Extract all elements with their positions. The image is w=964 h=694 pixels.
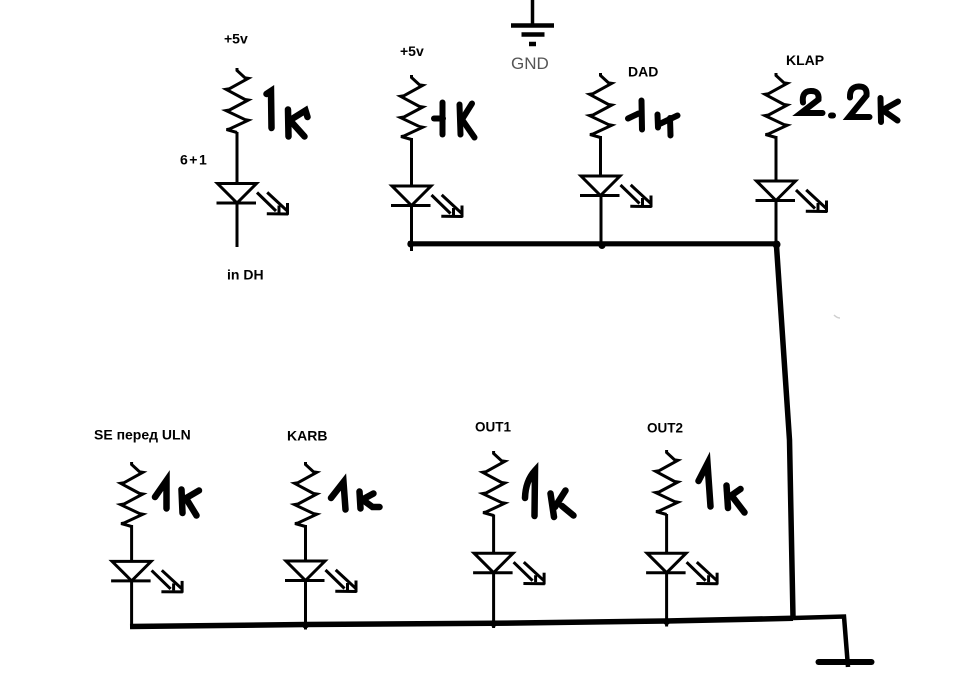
value 1k (R6) [331, 482, 380, 510]
value 1k (R5) [155, 481, 199, 516]
resistor R1 [226, 68, 248, 133]
LED D4 arrows [796, 190, 827, 212]
svg-text:6+1: 6+1 [180, 152, 208, 168]
wire R2 to D2 [410, 138, 413, 187]
LED D6 arrows [326, 570, 357, 592]
LED D1 [217, 184, 257, 204]
LED D7 [473, 553, 513, 573]
wire R3 to D3 [599, 136, 602, 177]
value 1k (R3) [628, 101, 678, 136]
wire R1 to D1 [236, 132, 239, 184]
wire D8 cathode to bus [665, 573, 668, 627]
resistor R3 [590, 73, 612, 138]
svg-text:KARB: KARB [287, 428, 327, 444]
junction node (D3 to bus) [599, 242, 606, 249]
value 1K (R2) [434, 103, 475, 138]
LED D2 [391, 186, 431, 206]
wire R4 to D4 [775, 136, 778, 182]
wire D4 cathode to bus [775, 201, 778, 253]
ground symbol (bottom right) [819, 659, 872, 665]
LED D1 arrows [257, 192, 288, 214]
LED D3 [580, 176, 620, 196]
ground symbol GND (top) [511, 0, 554, 44]
resistor R5 [121, 462, 143, 527]
resistor R2 [401, 75, 423, 140]
resistor R7 [483, 451, 505, 516]
resistor R4 [765, 73, 787, 138]
wire top bus [408, 241, 779, 246]
wire D1 cathode (open end) [236, 203, 239, 247]
value 1k (R7) [525, 471, 574, 518]
svg-text:OUT2: OUT2 [647, 421, 683, 436]
wire D6 cathode to bus [304, 581, 307, 630]
LED D5 [111, 561, 151, 581]
LED D6 [285, 561, 325, 581]
wire bottom bus to ground [793, 617, 848, 668]
wire R5 to D5 [130, 525, 133, 562]
junction node (D6 to bottom bus) [302, 622, 309, 629]
wire D5 cathode to bus [130, 581, 133, 628]
wire R6 to D6 [304, 525, 307, 562]
value 1k (R8) [699, 464, 745, 513]
resistor R8 [656, 450, 678, 515]
LED D5 arrows [152, 570, 183, 592]
svg-text:in DH: in DH [227, 267, 264, 283]
resistor R6 [295, 462, 317, 527]
value 2.2k (R4) [801, 86, 898, 122]
wire D2 cathode to bus [410, 206, 413, 252]
junction node (D7 to bottom bus) [490, 620, 497, 627]
svg-text:DAD: DAD [628, 64, 658, 80]
svg-text:SE перед ULN: SE перед ULN [94, 427, 191, 443]
faint pen smudge [834, 315, 840, 318]
wire D3 cathode to bus [600, 196, 603, 247]
LED D2 arrows [432, 195, 463, 217]
svg-text:GND: GND [511, 54, 549, 73]
svg-text:+5v: +5v [400, 43, 424, 59]
svg-text:OUT1: OUT1 [475, 420, 511, 435]
wire R7 to D7 [492, 515, 495, 555]
LED D3 arrows [621, 185, 652, 207]
value 1k (R1) [267, 91, 308, 137]
junction node (bus left end, D2) [407, 241, 414, 248]
LED D4 [756, 181, 796, 201]
wire D7 cathode to bus [492, 573, 495, 628]
junction node (D8 to bottom bus) [663, 618, 670, 625]
svg-text:KLAP: KLAP [786, 52, 824, 68]
svg-text:+5v: +5v [224, 31, 248, 47]
wire bottom bus [130, 618, 793, 626]
LED D8 arrows [687, 562, 718, 584]
wire R8 to D8 [665, 514, 668, 554]
LED D8 [646, 553, 686, 573]
LED D7 arrows [514, 562, 545, 584]
junction node (D4 to bus) [773, 241, 781, 249]
wire right vertical (bus to bottom bus) [777, 246, 794, 617]
